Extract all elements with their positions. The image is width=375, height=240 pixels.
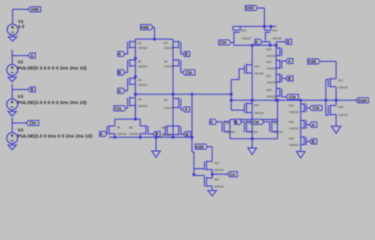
svg-text:CMOSN: CMOSN [289, 127, 299, 131]
svg-text:M17: M17 [267, 74, 273, 78]
svg-text:Vdd: Vdd [141, 25, 149, 30]
svg-text:CMOSN: CMOSN [338, 113, 348, 117]
svg-text:M16: M16 [267, 60, 273, 64]
svg-text:M5: M5 [164, 60, 168, 64]
svg-text:Sum: Sum [358, 98, 367, 103]
svg-text:M24: M24 [289, 104, 295, 108]
svg-text:Vdd: Vdd [308, 59, 316, 64]
svg-text:PULSE(3.3 0 0 0 0 2ns 2ns 10): PULSE(3.3 0 0 0 0 2ns 2ns 10) [18, 100, 87, 106]
svg-text:M28: M28 [338, 105, 344, 109]
svg-text:V4: V4 [18, 127, 24, 132]
svg-text:CMOSN: CMOSN [138, 104, 148, 108]
svg-text:M25: M25 [289, 120, 295, 124]
svg-text:V3: V3 [18, 94, 24, 99]
svg-text:M20: M20 [254, 103, 260, 107]
svg-text:PULSE(3.3 0 2ns 0 0 2ns 2ns 10: PULSE(3.3 0 2ns 0 0 2ns 2ns 10) [18, 133, 93, 139]
svg-text:B: B [288, 76, 291, 81]
svg-text:CMOSN: CMOSN [226, 130, 236, 134]
svg-text:CMOSP: CMOSP [267, 67, 277, 71]
svg-text:A: A [210, 120, 213, 125]
svg-text:CMOSP: CMOSP [267, 54, 277, 58]
svg-text:CMOSP: CMOSP [138, 46, 148, 50]
svg-text:B: B [118, 70, 121, 75]
svg-text:M27: M27 [338, 78, 344, 82]
svg-text:CMOSN: CMOSN [129, 132, 139, 136]
svg-text:CMOSP: CMOSP [214, 168, 224, 172]
svg-text:M19: M19 [254, 64, 260, 68]
svg-text:M7: M7 [117, 126, 121, 130]
svg-text:M10: M10 [162, 126, 168, 130]
svg-text:CMOSN: CMOSN [289, 110, 299, 114]
svg-text:Co: Co [230, 172, 236, 177]
svg-text:CMOSP: CMOSP [138, 83, 148, 87]
svg-text:A: A [118, 52, 121, 57]
svg-text:CMOSN: CMOSN [289, 143, 299, 147]
svg-text:CMOSN: CMOSN [214, 185, 224, 189]
svg-text:CMOSN: CMOSN [273, 130, 283, 134]
svg-text:CMOSN: CMOSN [248, 130, 258, 134]
svg-text:CMOSN: CMOSN [267, 95, 277, 99]
svg-text:CMOSP: CMOSP [164, 65, 174, 69]
svg-text:M14: M14 [272, 28, 278, 32]
svg-text:3.3: 3.3 [18, 24, 25, 29]
svg-text:A: A [312, 122, 315, 127]
svg-text:Cin: Cin [289, 95, 296, 100]
svg-text:A: A [100, 132, 103, 137]
svg-text:M1: M1 [138, 41, 142, 45]
svg-text:CMOSP: CMOSP [242, 36, 252, 40]
svg-text:B: B [186, 132, 189, 137]
svg-text:M12: M12 [214, 178, 220, 182]
svg-text:B: B [185, 52, 188, 57]
svg-text:M13: M13 [242, 28, 248, 32]
svg-text:CMOSP: CMOSP [254, 72, 264, 76]
svg-text:A: A [255, 40, 258, 45]
svg-text:B: B [312, 139, 315, 144]
svg-text:B: B [287, 40, 290, 45]
svg-text:V2: V2 [18, 59, 24, 64]
svg-text:Cin: Cin [29, 121, 36, 126]
svg-text:A: A [185, 107, 188, 112]
svg-text:M15: M15 [267, 48, 273, 52]
svg-text:CMOSP: CMOSP [338, 85, 348, 89]
svg-text:CMOSN: CMOSN [267, 81, 277, 85]
svg-text:M9: M9 [164, 98, 168, 102]
svg-text:M21: M21 [226, 121, 232, 125]
svg-text:M8: M8 [129, 126, 133, 130]
svg-text:CMOSP: CMOSP [272, 36, 282, 40]
svg-text:CMOSP: CMOSP [138, 65, 148, 69]
svg-text:PULSE(0 3.3 0 0 0 2ns 2ns 10): PULSE(0 3.3 0 0 0 2ns 2ns 10) [18, 65, 87, 71]
svg-text:CMOSN: CMOSN [117, 132, 127, 136]
svg-text:CMOSP: CMOSP [164, 46, 174, 50]
svg-text:CMOSN: CMOSN [254, 111, 264, 115]
svg-text:M2: M2 [138, 60, 142, 64]
svg-text:B: B [30, 87, 33, 92]
svg-text:Vdd: Vdd [31, 7, 39, 12]
svg-text:Cin: Cin [115, 106, 122, 111]
svg-text:M3: M3 [138, 78, 142, 82]
svg-text:CMOSN: CMOSN [162, 133, 172, 137]
svg-text:Cin: Cin [313, 106, 320, 111]
svg-text:Cin: Cin [220, 40, 227, 45]
svg-text:Cin: Cin [252, 120, 259, 125]
svg-text:M11: M11 [214, 161, 219, 165]
svg-text:A: A [118, 89, 121, 94]
svg-text:Vdd: Vdd [246, 6, 254, 11]
svg-text:M6: M6 [138, 97, 142, 101]
svg-text:M18: M18 [267, 88, 273, 92]
svg-text:Cin: Cin [185, 70, 192, 75]
svg-text:M4: M4 [164, 41, 168, 45]
svg-text:Vdd: Vdd [196, 144, 204, 149]
svg-text:M26: M26 [289, 137, 295, 141]
svg-text:M23: M23 [273, 121, 279, 125]
svg-text:B: B [235, 120, 238, 125]
svg-text:A: A [288, 59, 291, 64]
svg-text:CMOSN: CMOSN [164, 106, 174, 110]
svg-text:A: A [30, 53, 33, 58]
